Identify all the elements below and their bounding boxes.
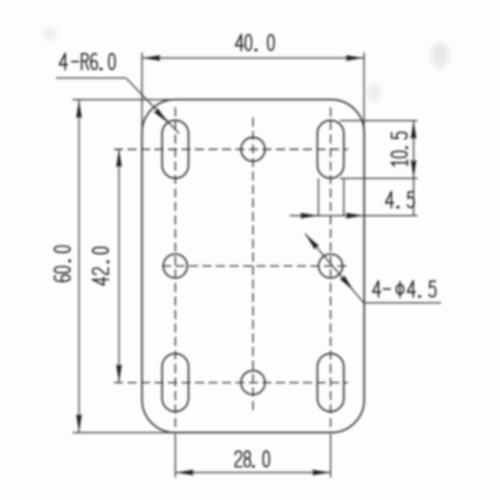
dim 28.0 arrow right	[312, 470, 330, 476]
dim 4.5 arrow at plate edge	[346, 213, 364, 219]
hole middle-right	[319, 254, 343, 278]
label 4-R6.0 leader diagonal	[127, 79, 180, 134]
dim 60.0 dimension line	[78, 100, 80, 433]
label 4-phi4.5 underline	[364, 302, 441, 304]
label 4-phi4.5 leader diagonal	[305, 234, 364, 303]
label text 4-phi4.5	[373, 281, 436, 298]
dim 10.5 extension line bottom	[340, 177, 418, 179]
dim 10.5 arrow top	[411, 121, 417, 139]
hole middle-left	[163, 254, 187, 278]
label 4-R6.0 leader horizontal	[56, 77, 127, 79]
hole bottom-center	[241, 371, 265, 395]
dimension text 42.0 (rotated)	[92, 247, 108, 285]
label text 4-R6.0	[59, 53, 115, 69]
dimension text 28.0	[235, 451, 269, 467]
dimension text 60.0 (rotated)	[54, 246, 70, 281]
dim 4.5 dimension line	[290, 215, 418, 217]
dimension text 10.5 (rotated)	[391, 132, 407, 166]
centerline horizontal top row	[114, 148, 348, 150]
dimension text 40.0	[236, 34, 274, 50]
dim 40.0 extension line left	[141, 53, 143, 136]
centerline horizontal bottom row	[114, 382, 348, 384]
scan smudge near top edge	[367, 84, 381, 102]
slot top-left	[162, 120, 188, 178]
dim 40.0 arrow right	[346, 55, 364, 61]
dim 28.0 dimension line	[175, 472, 330, 474]
label 4-phi4.5 arrow lower	[340, 275, 356, 292]
dim 40.0 arrow left	[143, 55, 161, 61]
centerline horizontal middle row	[162, 265, 350, 267]
dim 10.5 dim line continuation down	[413, 178, 415, 215]
dim 60.0 extension line top	[73, 99, 181, 101]
dim 4.5 arrow at slot	[300, 213, 318, 219]
dim 40.0 dimension line	[142, 57, 364, 59]
centerline vertical left column	[174, 108, 176, 434]
dim 28.0 extension line left	[174, 434, 176, 478]
dim 4.5 extension line left (slot edge extended)	[317, 178, 319, 216]
centerline vertical center column	[252, 118, 254, 413]
dim 60.0 arrow top	[76, 100, 82, 118]
dim 4.5 extension line right (slot edge extended)	[343, 178, 345, 216]
dim 28.0 arrow left	[176, 470, 194, 476]
label 4-R6.0 leader arrow	[153, 108, 170, 125]
dimension text 4.5	[386, 192, 414, 208]
dim 40.0 extension line right	[363, 53, 365, 136]
slot bottom-left	[162, 354, 188, 412]
dim 10.5 extension line top	[340, 120, 418, 122]
dim 60.0 arrow bottom	[76, 414, 82, 432]
hole top-center	[241, 137, 265, 161]
label 4-phi4.5 arrow upper	[303, 232, 319, 249]
scan smudge upper right	[431, 42, 449, 68]
dim 60.0 extension line bottom	[73, 432, 181, 434]
slot bottom-right	[317, 354, 343, 412]
dim 10.5 dimension line	[413, 121, 415, 179]
scan smudge top left	[43, 28, 57, 40]
plate outline	[142, 100, 364, 433]
dim 42.0 arrow top	[116, 149, 122, 167]
slot top-right	[317, 120, 343, 178]
centerline vertical right column	[330, 108, 332, 434]
dim 28.0 extension line right	[330, 434, 332, 478]
dim 10.5 arrow bottom	[411, 160, 417, 178]
dim 42.0 arrow bottom	[116, 364, 122, 382]
dim 42.0 dimension line	[118, 149, 120, 383]
